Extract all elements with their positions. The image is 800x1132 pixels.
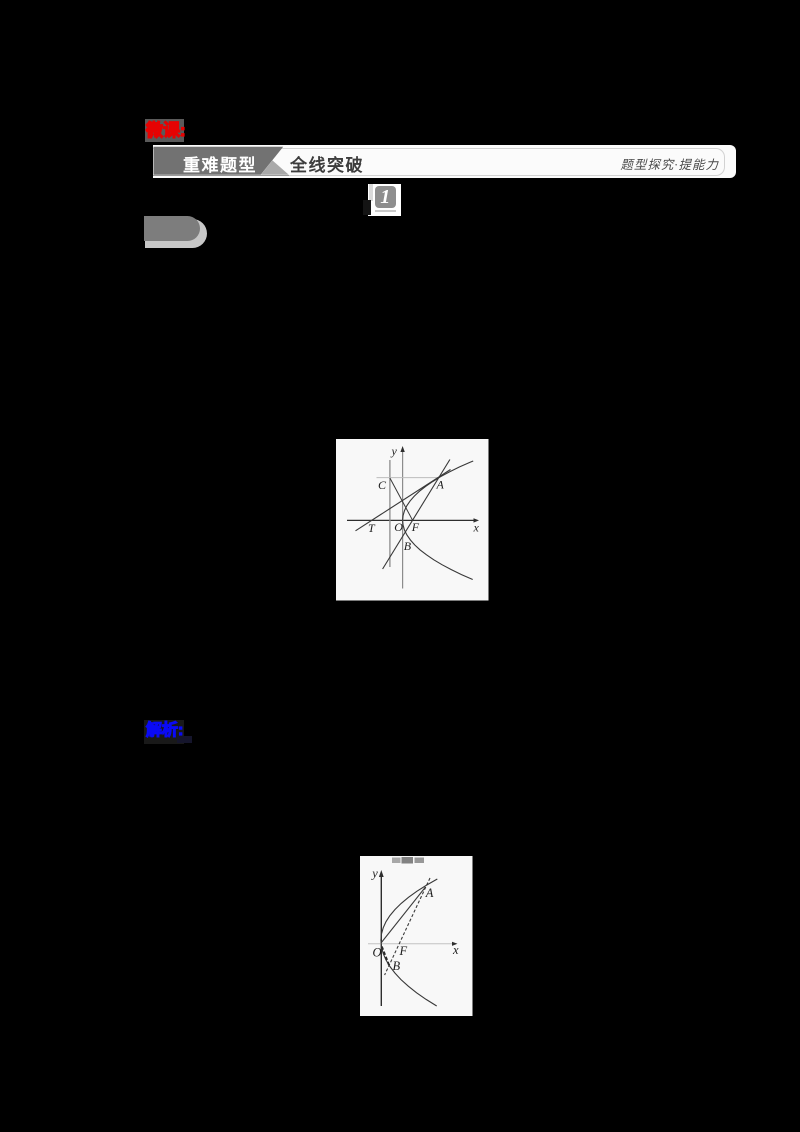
chord A-F-B dashed	[385, 877, 430, 974]
header dark banner with chevron	[153, 145, 293, 178]
red tag text	[146, 119, 190, 142]
svg-text:y: y	[391, 444, 398, 458]
parabola upper branch	[403, 461, 474, 520]
x-axis	[368, 942, 454, 944]
dark residue left of badge	[363, 200, 371, 215]
svg-text:F: F	[399, 943, 408, 957]
gray pill shadow	[145, 219, 207, 249]
header right slogan	[520, 154, 719, 173]
figure 2	[360, 856, 473, 1016]
header inner rounded border	[153, 148, 725, 176]
parabola lower branch	[403, 520, 473, 579]
svg-text:F: F	[411, 520, 420, 534]
dark navy residue	[177, 736, 192, 743]
svg-text:O: O	[394, 520, 403, 534]
blue tag box	[144, 720, 184, 744]
red tag box top-left	[145, 119, 184, 142]
directrix	[389, 460, 391, 567]
parabola	[381, 878, 437, 1005]
x-axis	[347, 519, 476, 521]
header title 全线突破	[290, 151, 364, 176]
svg-text:A: A	[425, 885, 434, 899]
segment C-F	[390, 478, 413, 520]
chord A-F-B	[383, 460, 450, 570]
badge 1 underline strip	[375, 210, 396, 213]
gray pill	[144, 216, 200, 241]
svg-text:A: A	[436, 478, 445, 492]
svg-text:y: y	[370, 866, 378, 880]
svg-text:C: C	[378, 478, 387, 492]
header title 重难题型	[183, 151, 257, 176]
labels	[370, 866, 459, 972]
segment O-B dashed bold	[382, 946, 389, 965]
svg-text:x: x	[473, 521, 480, 535]
svg-text:B: B	[404, 539, 412, 553]
segment O-A	[381, 886, 425, 941]
gray caption blob	[392, 857, 400, 862]
svg-text:O: O	[373, 945, 382, 959]
y-axis	[402, 450, 404, 589]
banner bottom shadow line	[153, 175, 289, 177]
svg-text:x: x	[452, 942, 459, 956]
blue tag text	[146, 720, 183, 742]
badge 1 white backdrop	[368, 184, 401, 216]
figure 1	[336, 439, 489, 601]
badge 1 gray rounded square	[375, 186, 397, 208]
svg-text:B: B	[393, 958, 401, 972]
tangent T-A	[356, 470, 451, 531]
header bar white background	[153, 145, 736, 178]
light CA line	[377, 477, 439, 479]
labels	[368, 444, 480, 553]
badge 1 left light strip	[369, 184, 374, 201]
y-axis	[380, 872, 382, 1005]
